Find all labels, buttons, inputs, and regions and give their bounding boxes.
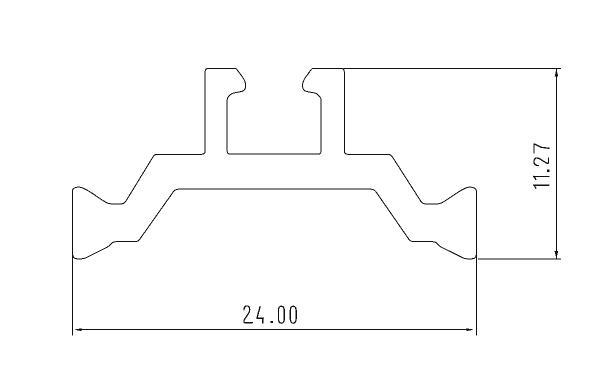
11.27 top extension line [344,67,561,69]
24.00 left arrowhead [75,328,82,331]
24.00 right arrowhead [466,328,473,331]
digit 0 [290,306,296,323]
digit 1 [534,176,549,179]
digit 2 [534,158,549,166]
11.27 bottom arrowhead [555,251,559,259]
dimension text 24.00 (stroked CAD-style glyphs, baseline y=323.3) [244,306,296,323]
24.00 right extension line [475,255,477,335]
digit 7 [534,144,549,153]
11.27 bottom extension line [478,258,561,260]
decimal point [547,170,549,172]
aluminum profile outline [73,68,477,258]
24.00 dimension line [76,329,472,331]
dimension text 11.27 (rotated 90 CCW, baseline x=549.3) [534,144,550,188]
digit 4 [257,307,263,324]
digit 0 [278,306,284,323]
digit 2 [244,306,252,323]
24.00 left extension line [72,255,74,335]
11.27 dimension line [555,69,557,259]
11.27 top arrowhead [555,69,559,77]
decimal point [271,321,273,323]
digit 1 [534,185,549,188]
